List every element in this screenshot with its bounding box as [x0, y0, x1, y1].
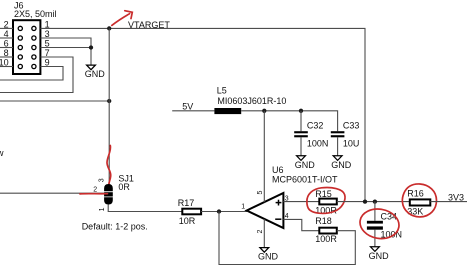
J6 left pin numbers: [0, 19, 9, 67]
svg-text:3V3: 3V3: [448, 192, 464, 202]
svg-text:2: 2: [257, 230, 264, 234]
svg-text:3: 3: [98, 178, 105, 182]
wire R15 to node: [337, 201, 410, 203]
wire pin3 to R15: [283, 201, 319, 203]
feedback wire: [219, 212, 355, 265]
junction pin3/pin5: [89, 45, 93, 49]
svg-text:1: 1: [241, 204, 245, 211]
wire SJ1 pin2 to left edge: [0, 192, 105, 194]
svg-text:GND: GND: [331, 160, 352, 170]
connector J6: [13, 1, 57, 74]
svg-text:C33: C33: [343, 120, 360, 130]
svg-text:GND: GND: [369, 251, 390, 261]
plus and minus input marks: [275, 200, 281, 220]
svg-text:10U: 10U: [343, 139, 360, 149]
svg-text:U6: U6: [272, 165, 284, 175]
resistor R16: [407, 189, 430, 217]
wire pin5 to gnd node: [41, 48, 92, 65]
U6 triangle body: [247, 193, 284, 228]
svg-text:GND: GND: [295, 160, 316, 170]
svg-text:5: 5: [257, 191, 264, 195]
wire pin9 loop: [0, 67, 63, 81]
svg-text:R18: R18: [315, 216, 332, 226]
resistor R17: [178, 198, 201, 226]
red trace on vertical wire: [107, 146, 111, 185]
red circle around R15: [307, 188, 345, 214]
ground GND C32: [295, 156, 316, 170]
capacitor C34: [367, 202, 402, 247]
capacitor C32: [294, 111, 328, 156]
inductor L5: [214, 86, 286, 115]
svg-text:GND: GND: [85, 69, 106, 79]
ground GND J6: [87, 65, 96, 70]
wire pin4 to R18: [283, 219, 319, 230]
svg-text:R15: R15: [315, 189, 332, 199]
wire VTARGET rail pin1: [41, 28, 366, 201]
svg-text:100R: 100R: [315, 234, 337, 244]
capacitor C33: [331, 120, 360, 155]
SJ1 pad 1: [104, 197, 113, 204]
svg-text:R17: R17: [178, 198, 195, 208]
svg-text:2X5, 50mil: 2X5, 50mil: [14, 9, 57, 19]
junction VTARGET at pin1: [107, 26, 111, 30]
J6 body: [13, 20, 40, 74]
svg-text:R16: R16: [407, 189, 424, 199]
junction C34 node: [373, 199, 377, 203]
red circle around R16: [402, 184, 436, 217]
svg-text:L5: L5: [217, 86, 227, 96]
junction output/feedback: [217, 209, 221, 213]
wire VTARGET down to SJ1: [108, 28, 110, 184]
wire opamp pin2 to gnd: [263, 219, 265, 247]
junction VTARGET node: [363, 199, 367, 203]
svg-text:w: w: [0, 148, 4, 158]
svg-text:0R: 0R: [118, 182, 130, 192]
svg-text:2: 2: [4, 19, 9, 29]
wire VTARGET left branch: [0, 100, 109, 102]
svg-text:5V: 5V: [182, 101, 193, 111]
wire pin7 loop: [0, 57, 73, 93]
J6 pin circles: [18, 26, 36, 68]
ground GND C33: [331, 156, 352, 170]
red circle around C34: [358, 206, 402, 242]
junction pin5 net: [262, 109, 266, 113]
J6 right pin numbers: [45, 19, 50, 67]
J6 left pin stubs: [0, 28, 13, 66]
SJ1 pad 2: [104, 192, 113, 196]
ground GND C34: [369, 247, 390, 261]
wire 5V rail: [172, 110, 214, 112]
wire opamp pin5: [263, 111, 265, 202]
svg-text:10: 10: [0, 58, 9, 68]
wire R17 to opamp output: [201, 211, 247, 213]
svg-text:100N: 100N: [307, 139, 329, 149]
wire R16 to 3V3: [430, 201, 467, 203]
solder jumper SJ1: [93, 174, 134, 212]
svg-text:MCP6001T-I/OT: MCP6001T-I/OT: [272, 175, 338, 185]
svg-text:6: 6: [4, 39, 9, 49]
svg-text:VTARGET: VTARGET: [128, 20, 170, 30]
svg-text:GND: GND: [258, 251, 279, 261]
svg-text:MI0603J601R-10: MI0603J601R-10: [217, 96, 286, 106]
svg-text:8: 8: [4, 48, 9, 58]
svg-text:Default: 1-2 pos.: Default: 1-2 pos.: [82, 221, 148, 231]
wire pin3 to gnd node: [41, 38, 92, 48]
wire L5 to C33: [241, 111, 337, 131]
junction VTARGET left branch: [107, 99, 111, 103]
junction C32 net: [299, 109, 303, 113]
svg-text:C32: C32: [307, 120, 324, 130]
svg-text:10R: 10R: [179, 216, 196, 226]
op-amp U6: [241, 165, 338, 234]
resistor R18: [315, 216, 337, 244]
svg-text:1: 1: [99, 207, 106, 211]
wire SJ1 pin1 to R17: [108, 205, 182, 212]
ground GND opamp: [258, 248, 279, 262]
resistor R15: [315, 189, 337, 215]
red trace on pin2 wire: [80, 193, 108, 195]
red arrow annotation: [112, 11, 133, 26]
SJ1 pad 3: [104, 184, 113, 191]
svg-text:4: 4: [4, 29, 9, 39]
svg-text:2: 2: [93, 186, 97, 193]
